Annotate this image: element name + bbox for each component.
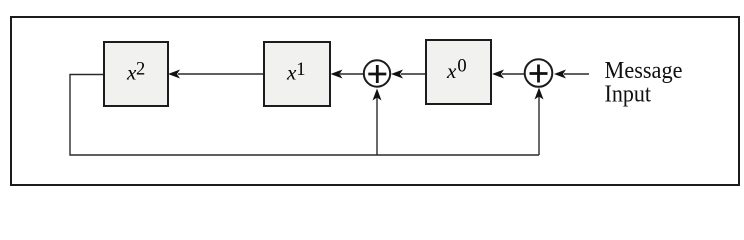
svg-text:2: 2 <box>136 60 145 80</box>
arrowhead into x^1 box <box>331 70 343 79</box>
plus sign A2 <box>530 72 548 75</box>
wire: riser into adder A2 <box>538 95 540 155</box>
wire: message input to adder A2 <box>564 73 589 75</box>
wire: adder A1 to x^1 <box>340 73 364 75</box>
svg-text:0: 0 <box>457 56 466 76</box>
svg-text:x: x <box>446 59 457 83</box>
register x^2 box <box>104 42 168 106</box>
arrowhead up into adder A1 <box>373 89 382 101</box>
register x^1 box <box>264 42 330 106</box>
svg-text:Input: Input <box>605 81 652 108</box>
wire: x^1 to x^2 <box>178 73 264 75</box>
register x^0 box <box>426 40 491 104</box>
arrowhead into adder A1 <box>391 70 403 79</box>
adder A2 circle <box>525 59 553 87</box>
outer border frame <box>11 17 739 185</box>
arrowhead into adder A2 <box>554 70 566 79</box>
wire: x^0 to adder A1 <box>401 73 426 75</box>
adder A1 circle <box>364 60 390 86</box>
arrowhead into x^0 box <box>492 70 504 79</box>
wire: adder A2 to x^0 <box>502 73 525 75</box>
arrowhead into x^2 box <box>168 70 180 79</box>
wire: riser into adder A1 <box>376 96 378 155</box>
plus sign A1 <box>368 73 386 76</box>
svg-text:1: 1 <box>296 60 305 80</box>
arrowhead up into adder A2 <box>535 88 544 100</box>
wire: feedback from x^2 output down and along bottom to adders <box>70 75 539 156</box>
